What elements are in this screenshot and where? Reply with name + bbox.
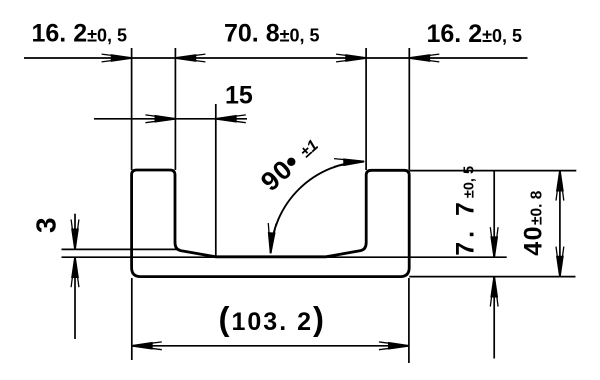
- arrow arc top, pointing right: [334, 158, 364, 167]
- arrow top at right inner, pointing right: [336, 54, 366, 62]
- extension line 3 top: [62, 248, 181, 250]
- angle arc 90 deg: [271, 162, 365, 254]
- arrow arc bottom, pointing down: [267, 223, 276, 253]
- svg-text:15: 15: [225, 82, 253, 110]
- extension line 3 bottom / base top left: [62, 256, 216, 258]
- arrow 40 bottom, pointing down: [556, 247, 564, 277]
- arrow 40 top, pointing up: [556, 171, 564, 201]
- arrow top at right outer, pointing left: [409, 54, 439, 62]
- extension line left inner: [174, 48, 176, 170]
- leader 3 lower: [74, 257, 76, 339]
- profile outline: [132, 170, 410, 277]
- extension line 103.2 left: [131, 278, 133, 360]
- degree dot: [287, 158, 295, 166]
- top dimension line chain: [24, 57, 528, 59]
- extension line left outer (16.2 left): [131, 48, 133, 170]
- arrow top at left outer, pointing right: [102, 54, 132, 62]
- extension line base top right (7.7): [326, 256, 507, 258]
- leader 7.7 lower: [493, 277, 495, 359]
- extension line for 15 at slope toe: [215, 104, 217, 257]
- svg-text:3: 3: [31, 217, 62, 233]
- arrow 103.2 left, pointing left: [132, 342, 162, 350]
- extension line right inner: [365, 48, 367, 170]
- leader 7.7 upper: [493, 171, 495, 258]
- leader 3 upper: [74, 214, 76, 250]
- arrow top at left inner, pointing left: [175, 54, 205, 62]
- arrow 3 upper, pointing down: [71, 219, 79, 249]
- arrow 15 at toe line, pointing left: [216, 115, 246, 123]
- extension line 40 top: [409, 170, 576, 172]
- extension line 103.2 right: [408, 278, 410, 363]
- dimension line 15: [94, 118, 247, 120]
- arrow 7.7 lower, pointing up: [490, 277, 498, 307]
- dimension line 103.2: [132, 345, 409, 347]
- extension line right outer: [408, 48, 410, 170]
- arrow 15 at left inner, pointing right: [145, 115, 175, 123]
- extension line 40/7.7 bottom: [409, 276, 575, 278]
- arrow 7.7 upper, pointing down: [490, 227, 498, 257]
- arrow 3 lower, pointing up: [71, 257, 79, 287]
- arrow 103.2 right, pointing right: [379, 342, 409, 350]
- dimension line 40: [559, 171, 561, 277]
